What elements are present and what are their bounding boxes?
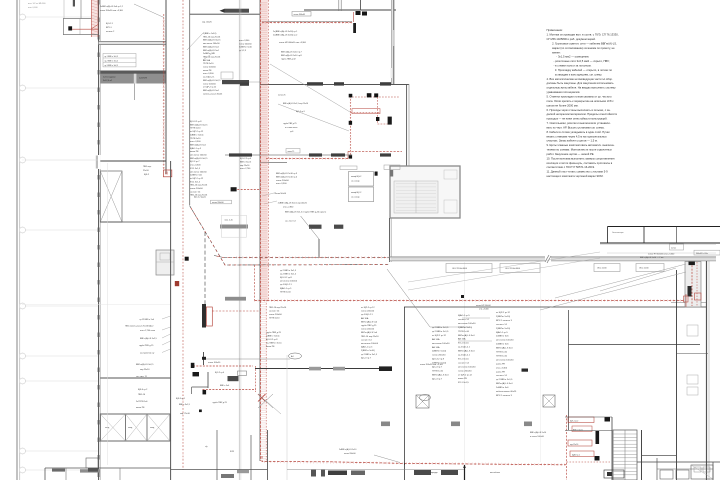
svg-text:коридор: коридор [430, 472, 439, 474]
wall: y14 corridor top wall [190, 13, 260, 15]
svg-text:отм.+3,300: отм.+3,300 [190, 165, 201, 167]
column X box at 416,395 [416, 395, 429, 408]
svg-text:от ЩР-2 гр.12: от ЩР-2 гр.12 [190, 178, 204, 180]
svg-text:2(ВВГнг 5х10): 2(ВВГнг 5х10) [496, 316, 510, 318]
grid bubbles left column [20, 14, 99, 473]
labels above y368 wall [420, 364, 444, 366]
svg-text:ПУГВ 1х10: ПУГВ 1х10 [280, 291, 292, 293]
svg-text:2(ВВГнг 5х10): 2(ВВГнг 5х10) [361, 350, 375, 352]
red-brown unit at 175,281 [175, 281, 179, 286]
black square 460,294 [461, 295, 464, 298]
svg-text:труба ПВХ д.25: труба ПВХ д.25 [283, 123, 297, 125]
svg-text:отм.+2,700 сила: отм.+2,700 сила [140, 330, 156, 332]
wall: y344.5 x568-700 [569, 344, 701, 346]
svg-text:см.лист 14: см.лист 14 [269, 311, 280, 313]
dark lintel bar y9-13 with arrow [220, 9, 250, 13]
svg-text:кор.25х16: кор.25х16 [570, 444, 578, 446]
storage cells with X y414-441 [100, 414, 170, 441]
window label boxes under top wall [446, 264, 664, 273]
cable: red horizontal y22 x262-352 [262, 21, 352, 22]
svg-text:S=12,4 м2: S=12,4 м2 [103, 80, 112, 82]
svg-text:лоток НЛ 200х50: лоток НЛ 200х50 [476, 305, 491, 307]
leader X diagonals near red corner [258, 394, 281, 414]
svg-text:3. Прокладку кабелей — открыто: 3. Прокладку кабелей — открыто, в лотках… [555, 68, 613, 72]
wall: east wall x406-409 y83-166 [407, 84, 409, 166]
wall: x464.5 y465-480 [463, 465, 466, 480]
svg-text:ЩО-3 гр.5: ЩО-3 гр.5 [296, 111, 305, 113]
svg-text:2(ВВГнг 5х10): 2(ВВГнг 5х10) [190, 134, 204, 136]
svg-text:от ЩР-2 гр.12: от ЩР-2 гр.12 [458, 374, 473, 376]
svg-text:ПВ1-16 кор.25х16: ПВ1-16 кор.25х16 [269, 307, 287, 309]
svg-text:ВВГнг(А)-LS 3х2,5: ВВГнг(А)-LS 3х2,5 [190, 123, 208, 126]
labels left wing lower [136, 363, 154, 409]
svg-text:ВВГнг 3х2,5: ВВГнг 3х2,5 [240, 161, 252, 163]
wall: y368.5 x255-392 with lintels [255, 366, 392, 371]
svg-text:2. Групповые осветит. сети — к: 2. Групповые осветит. сети — кабелем ВВГ… [552, 41, 617, 45]
cable: red line into appendix [72, 24, 99, 29]
stair block x390-460 y166-218 [390, 166, 460, 218]
door gap west wall y155-170 [96, 155, 101, 169]
svg-text:ВВГнг(А)-LS 5х10 гр.8: ВВГнг(А)-LS 5х10 гр.8 [281, 54, 303, 57]
svg-text:см.лист 14: см.лист 14 [496, 375, 508, 377]
svg-text:ОК-1 1200: ОК-1 1200 [639, 268, 649, 270]
svg-text:КЛ-1 3х1,5: КЛ-1 3х1,5 [458, 382, 469, 384]
svg-text:лоток 50х50: лоток 50х50 [275, 193, 287, 195]
black box 199,409 [199, 410, 202, 413]
svg-text:лоток 200х50: лоток 200х50 [458, 370, 472, 372]
svg-text:ПУГВ 1х10: ПУГВ 1х10 [190, 138, 201, 140]
svg-text:лоток 200х50 отм.+3,300: лоток 200х50 отм.+3,300 [100, 10, 124, 12]
walls bottom-right rooms x565-612 [565, 417, 612, 480]
dark equipment block y70-84 [100, 71, 166, 84]
svg-text:КЛ-1 3х1,5: КЛ-1 3х1,5 [458, 358, 469, 360]
notes text block top-right [547, 28, 619, 178]
svg-text:см. лист 12: см. лист 12 [285, 220, 297, 222]
svg-text:ВВГнг(А)-LS 5х10 гр.4: ВВГнг(А)-LS 5х10 гр.4 [276, 175, 298, 178]
svg-text:отм.+3,300: отм.+3,300 [479, 309, 489, 311]
svg-text:гр.2 ВВГнг 3х1,5: гр.2 ВВГнг 3х1,5 [266, 343, 282, 345]
svg-text:вязать стяжками через 4,5 м на: вязать стяжками через 4,5 м на горизонта… [547, 134, 608, 138]
svg-text:отм.+3,300: отм.+3,300 [190, 141, 201, 143]
svg-text:гр.4 ЩО-2.1: гр.4 ЩО-2.1 [458, 355, 471, 357]
svg-text:ВВГнг(А)-LS 5х16 — 2 шт.: ВВГнг(А)-LS 5х16 — 2 шт. [640, 256, 664, 259]
svg-text:ВРУ-1 панель 3: ВРУ-1 панель 3 [496, 320, 513, 322]
wall: appendix verticals to top edge [64, 0, 81, 19]
svg-text:ПУГВ 1х10: ПУГВ 1х10 [458, 331, 470, 333]
svg-text:2(ВВГнг 5х10): 2(ВВГнг 5х10) [458, 327, 472, 329]
svg-text:эстакадам и конструкциям, см.: эстакадам и конструкциям, см. схему. [555, 73, 602, 76]
svg-text:кабель-канал 40х25: кабель-канал 40х25 [496, 391, 517, 393]
red branch y311 [212, 310, 261, 312]
svg-text:ЩАО-1 гр.5: ЩАО-1 гр.5 [458, 314, 470, 317]
svg-text:ПВ1 кабель-канал 25х16 ЩК-2: ПВ1 кабель-канал 25х16 ЩК-2 [125, 326, 154, 328]
svg-text:2хВВГнг 5х6: 2хВВГнг 5х6 [496, 387, 509, 389]
wall: hall interior y307 x404-706 [404, 303, 706, 308]
text column upper x203 y32-97 [203, 33, 223, 95]
svg-text:ВВГнг(А)-LS 3х2,5: ВВГнг(А)-LS 3х2,5 [203, 79, 221, 82]
svg-text:ВВГнг(А)-LS 3х1,5 в трубе ПВХ: ВВГнг(А)-LS 3х1,5 в трубе ПВХ д.20 скрыт… [285, 210, 327, 213]
svg-text:вестибюль: вестибюль [490, 472, 500, 474]
svg-text:4. Все металлические нетоковед: 4. Все металлические нетоковедущие части… [547, 77, 613, 81]
labels right of top red line [273, 30, 307, 60]
svg-text:ЩО-3.2 гр.8: ЩО-3.2 гр.8 [432, 359, 445, 361]
svg-text:шина РЕ: шина РЕ [190, 151, 199, 153]
svg-text:2-06 КУИ: 2-06 КУИ [139, 78, 148, 80]
wall: y84.5 cross wall x260-409 with lintels [240, 82, 409, 86]
text column x266 y331-348 [266, 332, 282, 348]
bottom-left rooms walls [45, 468, 171, 480]
faint grid vertical x107.5 left wing [22, 160, 170, 465]
wall: x203.5 y352-365 [202, 352, 206, 365]
label box x293 y12 [292, 12, 311, 17]
red junction box at riser end [163, 170, 171, 177]
svg-text:шина РЕ: шина РЕ [496, 363, 505, 365]
svg-text:ЩС-3 гр.7: ЩС-3 гр.7 [432, 378, 443, 380]
small room box bottom-left 86,458 [86, 458, 98, 472]
gray door bar y224-228 [220, 225, 248, 229]
svg-text:ВВГнг(А)-LS 3х2,5: ВВГнг(А)-LS 3х2,5 [190, 157, 208, 160]
cable tray: bottom red run y462-465 [262, 456, 566, 465]
svg-text:лоток: лоток [671, 247, 676, 249]
text column x269 y306-321 [269, 307, 287, 320]
label rows x277-312 y200-212 [262, 193, 327, 223]
svg-text:тамбур: тамбур [340, 472, 347, 474]
cable tray: red route A y257.5 [214, 256, 389, 258]
svg-text:лоток 300х65: лоток 300х65 [294, 14, 306, 16]
svg-text:ПВ1-16 кор.25х16: ПВ1-16 кор.25х16 [203, 36, 221, 38]
svg-text:ЩК-4 гр.2: ЩК-4 гр.2 [138, 389, 148, 391]
svg-text:АВ 16А: АВ 16А [432, 338, 440, 341]
svg-text:мет.лоток 100х50: мет.лоток 100х50 [190, 155, 207, 157]
wall: y359 x206-290 [206, 358, 290, 360]
svg-text:шина РЕ: шина РЕ [496, 371, 505, 373]
svg-text:9. Щиты этажные комплектовать: 9. Щиты этажные комплектовать автоматич.… [547, 143, 615, 147]
elevator block x156-174 y250-275 [156, 250, 174, 275]
svg-text:ВВГнг(А)-LS 5х10 гр.7: ВВГнг(А)-LS 5х10 гр.7 [281, 51, 303, 54]
label row x274 y194 [275, 193, 287, 195]
svg-text:11. Данный лист читать совмест: 11. Данный лист читать совместно с листа… [547, 170, 609, 174]
mini table x103-136 y53-67 [103, 54, 136, 67]
svg-text:см.лист 14: см.лист 14 [458, 362, 470, 364]
wall: y222 cross wall [100, 221, 170, 223]
svg-text:КЛ-1 3х1,5: КЛ-1 3х1,5 [458, 343, 469, 345]
svg-text:ПУГВ 1х10: ПУГВ 1х10 [203, 63, 214, 65]
wall: y378 cross wall [100, 377, 170, 379]
labels x176-192 y397-416 [176, 398, 191, 415]
svg-text:ВВГнг(А)-LS 5х4: ВВГнг(А)-LS 5х4 [203, 89, 219, 92]
svg-text:см.лист 14: см.лист 14 [361, 339, 372, 341]
svg-text:ВВГнг(А)-LS 3х1,5 кор.25х16: ВВГнг(А)-LS 3х1,5 кор.25х16 [283, 102, 308, 105]
svg-text:гр.2 ВВГнг 3х1,5: гр.2 ВВГнг 3х1,5 [280, 274, 297, 276]
svg-text:мет.лоток 100х50: мет.лоток 100х50 [203, 43, 220, 45]
title table top y226-243 [600, 227, 720, 244]
svg-text:кор. 40х25: кор. 40х25 [202, 22, 213, 24]
svg-text:ВВГнг(А)-LS 5х4: ВВГнг(А)-LS 5х4 [496, 347, 513, 350]
svg-text:ВВГнг(А)-LS 5х4: ВВГнг(А)-LS 5х4 [458, 350, 475, 353]
svg-text:ВВГнг(А)-LS 3х2,5: ВВГнг(А)-LS 3х2,5 [203, 39, 221, 42]
red cluster bottom-right x565-612 [567, 415, 611, 480]
svg-text:2х(ВВГнг(А)-LS 5х16) гр.2: 2х(ВВГнг(А)-LS 5х16) гр.2 [273, 33, 298, 36]
svg-text:см.лист 14: см.лист 14 [458, 319, 470, 321]
svg-text:мет.лоток 100х50: мет.лоток 100х50 [280, 281, 298, 283]
svg-text:шагом не более 2000 мм.: шагом не более 2000 мм. [547, 103, 579, 107]
wall: x641.5 y430-480 [641, 430, 643, 480]
wall: corridor partition x189.7 [189, 0, 191, 205]
wall: x208 y372-388, y387 x191-208 [192, 372, 208, 394]
svg-text:мет.лоток 100х50: мет.лоток 100х50 [458, 323, 476, 325]
svg-text:ЩО-2.1: ЩО-2.1 [106, 23, 114, 25]
svg-text:ЩК-2: ЩК-2 [144, 174, 150, 176]
svg-text:марки (по согласованию) сечени: марки (по согласованию) сечением по прое… [552, 46, 615, 50]
svg-text:мет.лоток 100х50: мет.лоток 100х50 [432, 343, 450, 345]
svg-text:ВРУ-1: ВРУ-1 [106, 27, 113, 29]
svg-text:гр.1,2,3: гр.1,2,3 [239, 50, 247, 52]
svg-text:труба ПВХ д.25: труба ПВХ д.25 [361, 325, 377, 327]
svg-text:ЩК-3 гр.1: ЩК-3 гр.1 [176, 398, 186, 400]
svg-text:лоток 200х50: лоток 200х50 [190, 188, 204, 190]
cable circuit: red y112.4 x350-380 with red frame [351, 109, 381, 114]
svg-text:кор.25х16: кор.25х16 [240, 165, 250, 167]
short wall x134.7 y83.5-100 [134, 84, 136, 101]
svg-text:ЩС-3 гр.7: ЩС-3 гр.7 [190, 161, 200, 163]
svg-text:от ЩР-2 гр.12: от ЩР-2 гр.12 [190, 131, 204, 133]
svg-text:АВ 16А: АВ 16А [458, 338, 466, 341]
svg-text:гр.4 ЩО-2.1: гр.4 ЩО-2.1 [458, 347, 471, 349]
svg-text:2(ВВГнг 5х10): 2(ВВГнг 5х10) [432, 363, 446, 365]
labels lower-left cluster [208, 362, 230, 404]
wall: x340 double top [339, 0, 341, 11]
svg-text:2хВВГнг 5х6: 2хВВГнг 5х6 [496, 336, 509, 338]
label mid hall y430-440 [530, 431, 547, 438]
leader diagonal top-left to riser [134, 4, 164, 18]
svg-text:ОК-1 1200: ОК-1 1200 [597, 268, 607, 270]
text block x239 y39-49 [239, 40, 253, 52]
column X box at 543,395 [543, 395, 555, 407]
wall: y155 cross wall with lintels [225, 153, 391, 156]
svg-text:в стяжке пола: в стяжке пола [285, 127, 298, 129]
svg-text:мет.лоток 100х50: мет.лоток 100х50 [458, 366, 476, 368]
svg-text:изоляции и петли фаза-нуль, со: изоляции и петли фаза-нуль, составить пр… [547, 161, 613, 165]
svg-text:ЩО-3.2 гр.8: ЩО-3.2 гр.8 [266, 339, 278, 341]
svg-text:отм.+3,300: отм.+3,300 [276, 183, 287, 185]
svg-text:лоток 200х50: лоток 200х50 [203, 83, 217, 85]
text column x279 y269-295 [280, 270, 298, 293]
svg-text:кабель-канал 40х25: кабель-канал 40х25 [203, 93, 223, 95]
gray door bar y297-300 [225, 297, 246, 301]
svg-text:2(ВВГнг 5х10): 2(ВВГнг 5х10) [432, 351, 446, 353]
svg-text:пом. 2-15: пом. 2-15 [225, 220, 233, 222]
svg-text:от ЩР-2 гр.12: от ЩР-2 гр.12 [361, 307, 375, 309]
svg-text:ОК-2 2100х1800: ОК-2 2100х1800 [505, 268, 521, 270]
fixtures right rooms [687, 325, 698, 395]
svg-text:ВВГнг(А)-LS 5х4: ВВГнг(А)-LS 5х4 [190, 143, 206, 146]
svg-text:мет.лоток 100х50: мет.лоток 100х50 [190, 171, 207, 173]
text column tall x190-212 y120-196 [190, 121, 208, 197]
svg-text:лоток 200х50: лоток 200х50 [239, 43, 252, 45]
svg-text:ПВ1-16 кор.25х16: ПВ1-16 кор.25х16 [190, 185, 208, 187]
svg-text:10. После монтажа выполнить за: 10. После монтажа выполнить замеры сопро… [547, 156, 615, 160]
svg-text:менее:: менее: [552, 51, 561, 54]
wall: x360 top partition with equipment [360, 0, 362, 10]
svg-text:ЩС-2 гр.4: ЩС-2 гр.4 [215, 372, 225, 374]
svg-text:6. Проходы через стены выполня: 6. Проходы через стены выполнять в гильз… [547, 108, 611, 112]
svg-text:с/у: с/у [205, 446, 208, 448]
svg-text:лоток 200х50: лоток 200х50 [361, 329, 375, 331]
svg-text:КУИ: КУИ [230, 451, 234, 453]
shaft block x685-701 y261-307 [685, 262, 701, 308]
wall: hatched partition top x91-98 [91, 0, 98, 37]
window sill marks x393 wall [391, 30, 393, 78]
wall: x676.5 y270-480 [676, 270, 678, 480]
equipment box x221 y72-79 [221, 72, 233, 79]
svg-text:в лотке 100х50: в лотке 100х50 [530, 436, 545, 438]
diagonal leaders to shaft [387, 264, 686, 327]
svg-text:мет.лоток 100х50: мет.лоток 100х50 [361, 343, 379, 345]
wall: east wall x706.5 y261-480 [707, 261, 710, 480]
stairs block x612-641 y430-480 [613, 430, 637, 480]
label y21 small [202, 22, 213, 24]
svg-text:ЩО-2.2 (щит): ЩО-2.2 (щит) [194, 196, 206, 198]
svg-text:ЩАО-1 гр.5: ЩАО-1 гр.5 [190, 147, 202, 150]
svg-text:см. схему: см. схему [351, 196, 360, 198]
svg-text:- 3х1,5 мм2 — освещение;: - 3х1,5 мм2 — освещение; [556, 55, 589, 59]
svg-text:Экспликация: Экспликация [612, 232, 623, 234]
svg-text:ВВГнг(А)-LS 5х4: ВВГнг(А)-LS 5х4 [458, 334, 475, 337]
svg-text:гр.2 ВВГнг 3х1,5: гр.2 ВВГнг 3х1,5 [432, 331, 449, 333]
svg-text:ПУГВ 1х10: ПУГВ 1х10 [496, 355, 508, 357]
labels above wall right [640, 254, 675, 260]
callout boxes x348.5 y171-202 [349, 172, 378, 202]
svg-text:гр.2 ВВГнг 3х1,5: гр.2 ВВГнг 3х1,5 [361, 354, 378, 356]
svg-text:гр.4 розетки с/у: гр.4 розетки с/у [140, 353, 154, 355]
svg-text:отм.+3,300: отм.+3,300 [203, 73, 214, 75]
stair shaft with X 100-122/171-222 [100, 171, 122, 222]
svg-text:шкаф ЩЭ-2: шкаф ЩЭ-2 [351, 175, 361, 178]
svg-text:АВ 16А: АВ 16А [432, 346, 440, 349]
svg-text:проходок — не ниже огнестойкос: проходок — не ниже огнестойкости констру… [547, 117, 608, 121]
wall: y455 x641-677 [642, 455, 677, 457]
svg-text:2хВВГнг(А)-LS 5х6 гр.1,2: 2хВВГнг(А)-LS 5х6 гр.1,2 [100, 5, 124, 8]
svg-text:ВВГнг(А)-LS 3х2,5: ВВГнг(А)-LS 3х2,5 [140, 337, 158, 340]
black boxes on red x350 wall [349, 121, 352, 159]
svg-text:ВВГнг 5х4: ВВГнг 5х4 [220, 385, 230, 387]
bottom rooms small walls x171-287 [171, 355, 287, 480]
equipment marks near 355-368 y11-15 [353, 11, 367, 33]
svg-text:уравнивания потенциалов.: уравнивания потенциалов. [547, 91, 581, 94]
svg-text:ЩАО гр.1: ЩАО гр.1 [572, 454, 580, 457]
svg-text:ВВГнг(А)-LS 5х4: ВВГнг(А)-LS 5х4 [361, 320, 378, 323]
labels bottom rooms [205, 446, 500, 474]
svg-text:отдельную жилу кабеля. На ввод: отдельную жилу кабеля. На вводах выполни… [547, 86, 617, 90]
cable circuit: red v x377.5 y97-124 and y124 x377-389 [376, 97, 392, 125]
svg-text:гр.3 ВВГнг 3х2,5: гр.3 ВВГнг 3х2,5 [105, 65, 118, 67]
red drop x353 y11-22 [353, 12, 355, 22]
wall: left wing west wall x98 [99, 0, 101, 480]
svg-text:см. схему: см. схему [351, 181, 360, 183]
svg-text:отм.+3,300: отм.+3,300 [239, 40, 250, 42]
svg-text:отм.+2,850: отм.+2,850 [283, 207, 294, 209]
svg-text:труба ПВХ д.25: труба ПВХ д.25 [213, 402, 228, 404]
wall: left wing east wall upper x166 with red riser [164, 0, 166, 174]
ellipse callout 425,397 [420, 395, 431, 401]
svg-text:лоток 25: лоток 25 [288, 151, 295, 153]
svg-text:лоток 100х50: лоток 100х50 [208, 362, 221, 364]
svg-text:пола. Лотки крепить к перекрыт: пола. Лотки крепить к перекрытию на шпил… [547, 99, 615, 103]
svg-text:ВВГнг 3х1,5: ВВГнг 3х1,5 [179, 404, 191, 406]
svg-text:ЩС-3 гр.7: ЩС-3 гр.7 [432, 367, 443, 369]
svg-text:лоток 200х50: лоток 200х50 [344, 453, 356, 455]
leader diagonal corridor upper [187, 33, 214, 60]
svg-text:ЩАО-1 гр.5: ЩАО-1 гр.5 [496, 331, 508, 334]
svg-text:- в стяжке пола и за потолком.: - в стяжке пола и за потолком. [554, 65, 592, 68]
bottom-right corner rooms [604, 458, 720, 480]
svg-text:- розеточные сети 3х2,5 мм2 —: - розеточные сети 3х2,5 мм2 — скрыто, ПВ… [554, 59, 610, 63]
svg-text:отм.+3,300: отм.+3,300 [496, 367, 508, 369]
svg-text:ПУГВ 1х10: ПУГВ 1х10 [190, 128, 201, 130]
frame: left border lines [17, 0, 20, 480]
svg-text:ВВГнг(А)-LS 5х4: ВВГнг(А)-LS 5х4 [203, 49, 219, 52]
svg-text:ЩО-2.2 гр.4: ЩО-2.2 гр.4 [240, 158, 252, 160]
wall: top wall y10 x304-396 [304, 9, 396, 11]
svg-text:гр.2 ВВГнг 3х1,5: гр.2 ВВГнг 3х1,5 [496, 379, 513, 381]
wall: x404.5 y307-465 [404, 307, 406, 465]
svg-text:гр.4 ЩО-2.1: гр.4 ЩО-2.1 [280, 284, 293, 286]
svg-text:от ЩР-2 гр.12: от ЩР-2 гр.12 [496, 312, 511, 314]
svg-text:лоток 25: лоток 25 [278, 95, 286, 97]
svg-text:участках. Запас кабеля у щитов: участках. Запас кабеля у щитов — 1,5 м. [547, 139, 598, 143]
leader and vertical x319 y239-258 [301, 216, 319, 257]
svg-text:лоток 200х50: лоток 200х50 [269, 314, 283, 316]
black boxes on red y97 [349, 93, 379, 97]
pipe break symbol x548 [545, 255, 551, 264]
svg-text:ПВ1-16 кор.25х16: ПВ1-16 кор.25х16 [361, 336, 379, 338]
svg-text:лоток 200х50: лоток 200х50 [361, 311, 375, 313]
cable tray: main red vertical x260-268 [260, 0, 268, 462]
label box 670,244 [670, 244, 684, 250]
svg-text:1. Монтаж эл.проводки вып. в с: 1. Монтаж эл.проводки вып. в соотв. с ПУ… [547, 33, 619, 37]
text column x461 y314-385 [458, 314, 492, 384]
svg-text:ПУГВ 1х10: ПУГВ 1х10 [496, 352, 508, 354]
svg-text:лоток 200х50: лоток 200х50 [276, 180, 290, 182]
cable: red vertical x254.5 y265-300 [254, 265, 256, 301]
bottom edge room bars y469-476 [287, 470, 464, 477]
label box 694,250 [694, 250, 720, 255]
grid dash vertical x205 [204, 232, 206, 304]
svg-text:гр.2 ВВГнг 3х1,5: гр.2 ВВГнг 3х1,5 [105, 60, 118, 62]
cable cluster lower-left: red y389.5 [203, 389, 257, 391]
svg-text:шина РЕ: шина РЕ [458, 378, 467, 380]
black square 184.7,257 [185, 257, 189, 261]
svg-text:телями по схемам. Монтаж вести: телями по схемам. Монтаж вести после отд… [547, 148, 613, 152]
hall mid labels and marker [476, 305, 528, 372]
svg-text:8. Кабели в лотках укладывать: 8. Кабели в лотках укладывать в один сло… [547, 130, 611, 134]
wall: appendix rooms top-left [63, 19, 99, 36]
wall y353.5 x676-708 [677, 353, 709, 355]
svg-text:ЩС-3 гр.7: ЩС-3 гр.7 [361, 357, 372, 359]
dimension lines above hall y244-253 [600, 245, 716, 254]
wall: corridor cross wall y41-45 [99, 41, 166, 44]
wall: left wing east wall lower x170.6 [170, 161, 172, 480]
svg-text:ВВГнг(А)-LS 5х4: ВВГнг(А)-LS 5х4 [361, 331, 378, 334]
svg-text:КЛ-1 3х1,5: КЛ-1 3х1,5 [190, 168, 201, 170]
svg-text:мет.лоток 100х50: мет.лоток 100х50 [496, 359, 514, 361]
svg-text:гр.12 ВВГнг 5х4: гр.12 ВВГнг 5х4 [140, 319, 155, 321]
svg-text:делкой негорючим материалом. П: делкой негорючим материалом. Пределы огн… [547, 112, 618, 116]
svg-text:панель 2: панель 2 [106, 31, 115, 33]
svg-text:ОК-2 2100х1800: ОК-2 2100х1800 [452, 268, 468, 270]
svg-text:ВВГнг(А)-LS 5х4: ВВГнг(А)-LS 5х4 [496, 382, 513, 385]
text column x360 y306-360 [361, 307, 379, 359]
